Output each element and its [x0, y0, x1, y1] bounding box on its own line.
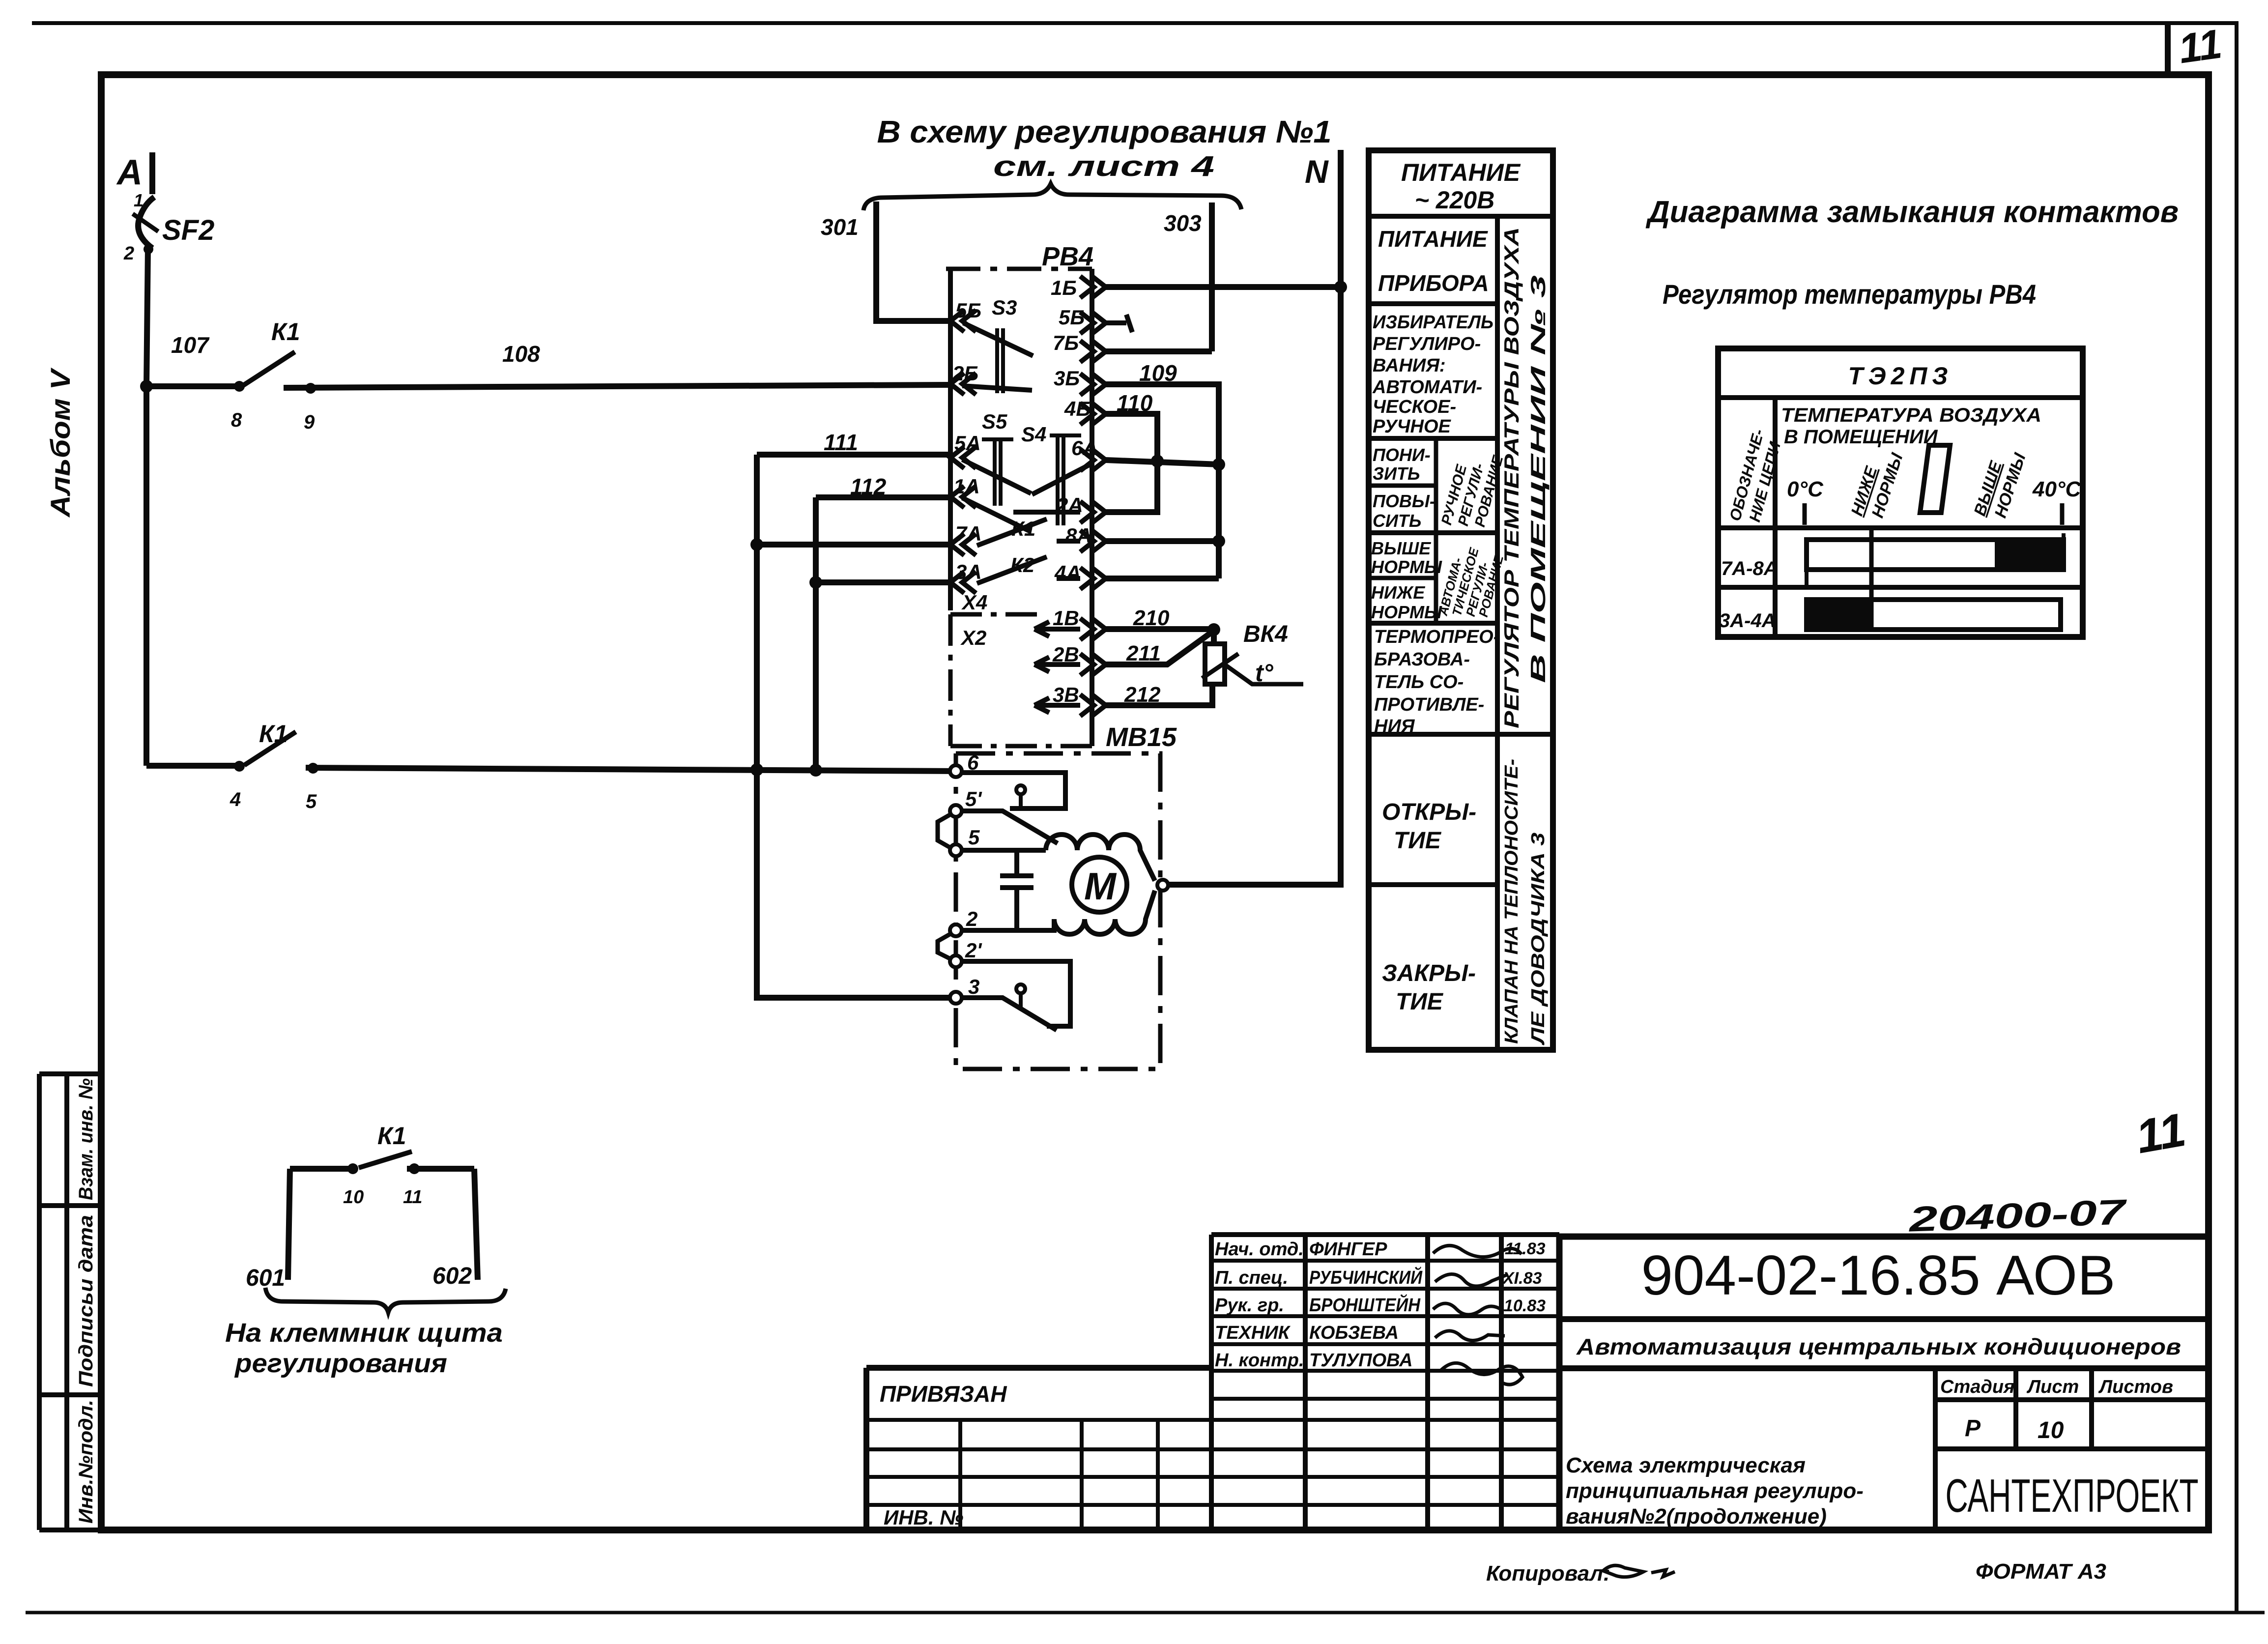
wire 1Б to N	[1106, 284, 1341, 290]
svg-text:СИТЬ: СИТЬ	[1373, 511, 1421, 531]
clamp grid	[866, 1420, 1211, 1505]
rotated cell: Ручное регулирование	[1434, 438, 1438, 533]
svg-text:SF2: SF2	[162, 214, 214, 246]
pin stub 3В with arrow	[1034, 698, 1080, 713]
svg-text:Схема электрическая: Схема электрическая	[1566, 1453, 1806, 1477]
svg-text:N: N	[1305, 153, 1329, 190]
svg-text:5: 5	[968, 826, 980, 849]
switch S5 manual actuator	[982, 439, 1013, 506]
svg-text:111: 111	[824, 430, 858, 455]
svg-text:10: 10	[2038, 1417, 2064, 1443]
node: 6А crosses 110 loop	[1151, 455, 1164, 467]
svg-text:1В: 1В	[1053, 606, 1079, 630]
PB4/X2 dashed outline bottom	[950, 614, 1092, 746]
svg-text:В ПОМЕЩЕНИИ: В ПОМЕЩЕНИИ	[1784, 426, 1938, 448]
svg-text:ТЭ2ПЗ: ТЭ2ПЗ	[1848, 362, 1953, 390]
wire 6А	[1106, 460, 1219, 464]
pin 7Б right chevron	[1080, 341, 1106, 362]
rotated column divider	[1495, 216, 1500, 1050]
circuit breaker SF2	[138, 197, 154, 248]
svg-text:602: 602	[432, 1263, 472, 1289]
svg-text:6А: 6А	[1071, 436, 1098, 460]
sensor slash and t°	[1202, 654, 1238, 678]
pin 4Б right chevron	[1080, 403, 1106, 425]
svg-text:2': 2'	[965, 939, 982, 962]
svg-text:НИЖЕ: НИЖЕ	[1371, 582, 1425, 603]
svg-text:ТЕХНИК: ТЕХНИК	[1215, 1323, 1291, 1343]
switch contact 2Б-3Б	[962, 386, 1032, 390]
contact bar 3А-4А (closed below norm)	[1807, 600, 2061, 630]
svg-text:ЗИТЬ: ЗИТЬ	[1373, 463, 1420, 484]
svg-text:Подписьи дата: Подписьи дата	[75, 1215, 97, 1387]
wire N bus	[1168, 150, 1341, 885]
pin 2А right chevron	[1080, 501, 1106, 523]
svg-text:На клеммник щита: На клеммник щита	[225, 1318, 503, 1348]
svg-text:3В: 3В	[1053, 683, 1079, 706]
svg-text:РУЧНОЕ: РУЧНОЕ	[1373, 416, 1452, 437]
svg-text:2В: 2В	[1052, 643, 1079, 666]
svg-text:ВЫШЕ: ВЫШЕ	[1371, 538, 1431, 558]
svg-text:ПРОТИВЛЕ-: ПРОТИВЛЕ-	[1374, 694, 1484, 715]
wire to MB15 terminal 6	[306, 768, 958, 771]
capacitor C	[1000, 850, 1034, 930]
svg-text:11: 11	[2176, 20, 2224, 72]
svg-text:Н. контр.: Н. контр.	[1215, 1350, 1304, 1371]
wire 7Б to 303	[1106, 348, 1212, 354]
svg-text:Инв.№подл.: Инв.№подл.	[75, 1400, 97, 1524]
contact K2 (3А-4А)	[977, 557, 1080, 583]
terminal 3	[950, 992, 962, 1004]
svg-text:МВ15: МВ15	[1106, 722, 1177, 752]
svg-text:2: 2	[123, 243, 134, 264]
pin 7А left chevrons	[950, 534, 976, 555]
svg-text:5': 5'	[965, 787, 982, 810]
switch S3 moving contact 5Б-7Б	[963, 323, 1033, 356]
switch contact 6А branch	[1032, 463, 1093, 494]
pin 2В right chevron	[1080, 654, 1106, 675]
stage/sheet grid	[1935, 1368, 2209, 1530]
signal table frame	[1369, 150, 1553, 1050]
svg-text:ТИЕ: ТИЕ	[1396, 989, 1444, 1015]
svg-text:9: 9	[304, 411, 315, 433]
svg-text:S4: S4	[1021, 423, 1046, 446]
svg-text:БРАЗОВА-: БРАЗОВА-	[1374, 649, 1470, 670]
wire 7А	[757, 542, 950, 548]
svg-text:К1: К1	[259, 720, 288, 748]
svg-text:Автоматизация центральных ко: Автоматизация центральных кондиционеров	[1576, 1334, 2181, 1359]
left column Обозначение цепи	[1773, 398, 1778, 637]
svg-text:ПРИБОРА: ПРИБОРА	[1378, 270, 1489, 296]
terminal 6	[950, 765, 962, 777]
svg-text:3А-4А: 3А-4А	[1719, 610, 1776, 632]
node: 8А joins 109 riser	[1212, 535, 1225, 548]
MB15 dashed boundary	[956, 753, 1160, 1069]
svg-text:S5: S5	[982, 410, 1007, 433]
svg-text:Регулятор температуры РВ4: Регулятор температуры РВ4	[1663, 279, 2036, 310]
svg-text:ИЗБИРАТЕЛЬ: ИЗБИРАТЕЛЬ	[1373, 312, 1493, 333]
svg-text:303: 303	[1164, 210, 1202, 236]
svg-text:A: A	[116, 153, 143, 192]
wire 3А	[816, 579, 950, 585]
svg-text:САНТЕХПРОЕКТ: САНТЕХПРОЕКТ	[1946, 1470, 2199, 1522]
svg-text:В ПОМЕЩЕНИИ № 3: В ПОМЕЩЕНИИ № 3	[1526, 275, 1550, 683]
brace to sheet 4	[863, 184, 1241, 210]
contact bar 7А-8А (closed above norm)	[1807, 540, 2064, 570]
svg-text:ПОВЫ-: ПОВЫ-	[1373, 491, 1435, 511]
motor M winding lower	[1054, 891, 1155, 934]
svg-text:см. лист 4: см. лист 4	[993, 150, 1214, 182]
svg-text:Листов: Листов	[2098, 1377, 2173, 1397]
rotated cell: Автоматическое регулирование	[1434, 533, 1438, 623]
row divider	[1718, 585, 2083, 590]
motor output terminal	[1157, 880, 1168, 891]
svg-text:В схему регулирования №1: В схему регулирования №1	[877, 114, 1332, 149]
motor M winding upper	[1046, 835, 1155, 881]
svg-text:2: 2	[966, 907, 977, 930]
svg-text:1А: 1А	[953, 475, 980, 498]
svg-text:Диаграмма замыкания контакто: Диаграмма замыкания контактов	[1645, 195, 2179, 229]
upper limit switch pin	[1016, 785, 1025, 794]
svg-text:П. спец.: П. спец.	[1215, 1268, 1288, 1288]
svg-text:5: 5	[306, 791, 317, 812]
node: 7А taps riser A1	[750, 538, 763, 551]
wire 8А	[1106, 538, 1219, 544]
lower limit switch bracket	[961, 961, 1070, 1026]
svg-text:601: 601	[246, 1265, 285, 1291]
pin 1В right chevron	[1080, 618, 1106, 640]
svg-text:БРОНШТЕЙН: БРОНШТЕЙН	[1309, 1294, 1421, 1316]
wire: phase A stub above SF2	[149, 152, 155, 194]
node: junction vertical B1 on terminal-6 wire	[809, 764, 822, 777]
title block main frame	[1559, 1237, 2209, 1530]
pin 1А left chevrons	[950, 486, 976, 508]
svg-text:5Б: 5Б	[1059, 306, 1085, 329]
svg-text:107: 107	[171, 332, 210, 358]
svg-text:0°С: 0°С	[1787, 477, 1824, 501]
svg-text:8: 8	[231, 409, 242, 431]
riser B1 (112 down)	[813, 497, 819, 770]
svg-text:ПРИВЯЗАН: ПРИВЯЗАН	[880, 1381, 1007, 1407]
node: junction vertical A1 on terminal-6 wire	[750, 763, 763, 776]
svg-text:5Б: 5Б	[955, 299, 981, 322]
svg-text:7Б: 7Б	[1053, 331, 1079, 354]
switch S4 manual actuator	[1050, 435, 1081, 525]
svg-text:ВК4: ВК4	[1243, 621, 1288, 647]
svg-text:вания№2(продолжение): вания№2(продолжение)	[1566, 1504, 1827, 1529]
svg-text:904-02-16.85 АОВ: 904-02-16.85 АОВ	[1641, 1244, 2116, 1307]
sheet top edge line	[32, 21, 2235, 25]
svg-text:t°: t°	[1255, 659, 1274, 687]
svg-text:ЗАКРЫ-: ЗАКРЫ-	[1382, 960, 1476, 986]
svg-text:Х2: Х2	[960, 626, 986, 649]
svg-text:Х4: Х4	[961, 591, 987, 614]
sheet right edge line	[2235, 21, 2239, 1614]
pin 2Б left chevrons	[950, 373, 976, 395]
svg-text:ТИЕ: ТИЕ	[1394, 828, 1442, 854]
svg-text:10: 10	[343, 1187, 364, 1208]
svg-text:НОРМЫ: НОРМЫ	[1371, 602, 1442, 622]
svg-text:11: 11	[2132, 1103, 2189, 1164]
terminal 2'	[950, 955, 962, 967]
sidebar stamp boxes (left margin)	[39, 1074, 101, 1530]
svg-text:3Б: 3Б	[1054, 367, 1080, 390]
svg-text:Рук. гр.: Рук. гр.	[1215, 1295, 1284, 1316]
svg-text:ЧЕСКОЕ-: ЧЕСКОЕ-	[1373, 397, 1456, 417]
svg-text:ТЕМПЕРАТУРА ВОЗДУХА: ТЕМПЕРАТУРА ВОЗДУХА	[1781, 404, 2041, 426]
switch S3 linkage	[997, 328, 1003, 393]
upper limit switch bracket	[961, 773, 1065, 808]
svg-text:РЕГУЛЯТОР ТЕМПЕРАТУРЫ ВОЗДУХА: РЕГУЛЯТОР ТЕМПЕРАТУРЫ ВОЗДУХА	[1500, 227, 1523, 728]
svg-text:ТЕРМОПРЕО-: ТЕРМОПРЕО-	[1374, 627, 1499, 647]
contact K1 (7А-8А)	[977, 519, 1080, 546]
sheet number box top-right	[2165, 23, 2171, 75]
wire 602 drop	[474, 1169, 478, 1280]
svg-text:РУБЧИНСКИЙ: РУБЧИНСКИЙ	[1309, 1266, 1423, 1288]
svg-text:Лист: Лист	[2026, 1377, 2079, 1397]
svg-text:10.83: 10.83	[1504, 1297, 1546, 1315]
svg-text:4: 4	[230, 789, 241, 810]
svg-text:5А: 5А	[954, 432, 981, 455]
svg-text:ОТКРЫ-: ОТКРЫ-	[1382, 799, 1476, 825]
wire 601 drop	[288, 1169, 290, 1280]
svg-text:ВАНИЯ:: ВАНИЯ:	[1373, 355, 1446, 376]
pin 3В right chevron	[1080, 694, 1106, 716]
svg-text:ТЕЛЬ СО-: ТЕЛЬ СО-	[1374, 672, 1464, 692]
svg-text:~ 220В: ~ 220В	[1415, 186, 1495, 214]
norm line vertical	[1869, 528, 1874, 630]
node: 210/211 join above BK4	[1207, 623, 1220, 636]
pin 3А left chevrons	[950, 572, 976, 593]
svg-text:К1: К1	[271, 318, 300, 346]
svg-text:регулирования: регулирования	[234, 1349, 447, 1378]
svg-text:3А: 3А	[955, 560, 982, 583]
pin 5Б left chevrons	[950, 310, 976, 332]
svg-text:НОРМЫ: НОРМЫ	[1371, 557, 1442, 577]
pin stub 1В with arrow	[1034, 622, 1080, 636]
svg-text:3: 3	[968, 975, 979, 998]
pin 5Б right chevron	[1080, 312, 1106, 334]
svg-text:АВТОМАТИ-: АВТОМАТИ-	[1372, 377, 1482, 398]
svg-text:Нач. отд.: Нач. отд.	[1215, 1239, 1304, 1260]
svg-text:11.83: 11.83	[1505, 1240, 1546, 1258]
sheet bottom edge line	[26, 1611, 2265, 1615]
wire: phase A vertical bus	[146, 248, 148, 766]
svg-text:ФОРМАТ А3: ФОРМАТ А3	[1976, 1559, 2106, 1584]
svg-text:S3: S3	[992, 296, 1017, 319]
pin 3Б right chevron	[1080, 374, 1106, 395]
clamp box Привязан	[866, 1368, 1211, 1530]
svg-text:2Б: 2Б	[952, 362, 978, 385]
svg-text:КЛАПАН НА ТЕПЛОНОСИТЕ-: КЛАПАН НА ТЕПЛОНОСИТЕ-	[1501, 759, 1522, 1044]
riser A1 (111 to clamp)	[757, 455, 953, 998]
svg-text:11: 11	[403, 1187, 422, 1208]
terminal 5'	[950, 805, 962, 817]
PB4 right pin bus	[1090, 269, 1094, 746]
svg-text:Стадия: Стадия	[1940, 1377, 2014, 1397]
pin 8А right chevron	[1080, 530, 1106, 552]
svg-text:ПОНИ-: ПОНИ-	[1373, 445, 1431, 465]
contact diagram table ТЭ2ПЗ	[1718, 348, 2083, 637]
svg-text:принципиальная регулиро-: принципиальная регулиро-	[1566, 1479, 1864, 1503]
node: junction of wire 107 on bus A	[140, 380, 153, 393]
jumper link 2-2'	[938, 933, 951, 959]
PB4 left pin bus	[948, 269, 953, 610]
svg-text:ФИНГЕР: ФИНГЕР	[1309, 1239, 1387, 1260]
svg-text:ТУЛУПОВА: ТУЛУПОВА	[1309, 1350, 1413, 1371]
wire 5Б stub	[1106, 315, 1132, 332]
lower limit switch contact	[962, 998, 1057, 1030]
jumper link 5'-5	[938, 814, 951, 848]
upper limit switch contact	[962, 811, 1058, 843]
wire terminal 2 under motor	[962, 920, 1054, 930]
wire 4А	[1106, 576, 1219, 581]
svg-text:Альбом V: Альбом V	[45, 367, 76, 518]
svg-text:7А-8А: 7А-8А	[1721, 558, 1778, 579]
svg-text:ИНВ. №: ИНВ. №	[884, 1506, 963, 1529]
svg-text:XI.83: XI.83	[1502, 1269, 1542, 1288]
brace (to terminal strip)	[265, 1288, 506, 1312]
node: 6А joins 109 riser	[1212, 458, 1225, 471]
svg-text:ЛЕ ДОВОДЧИКА 3: ЛЕ ДОВОДЧИКА 3	[1528, 833, 1549, 1046]
svg-text:7А: 7А	[955, 522, 982, 545]
svg-text:ПИТАНИЕ: ПИТАНИЕ	[1378, 226, 1488, 252]
terminal 5	[950, 844, 962, 856]
svg-text:108: 108	[502, 341, 540, 367]
pin 6А right chevron	[1080, 449, 1106, 471]
svg-text:Взам. инв. №: Взам. инв. №	[75, 1078, 97, 1200]
svg-text:20400-07: 20400-07	[1907, 1192, 2128, 1240]
lower limit switch pin	[1016, 984, 1025, 993]
svg-text:ПИТАНИЕ: ПИТАНИЕ	[1401, 159, 1521, 186]
header bottom line	[1718, 525, 2083, 530]
svg-text:4Б: 4Б	[1064, 397, 1091, 420]
svg-text:1Б: 1Б	[1051, 276, 1077, 299]
setpoint parallelogram	[1920, 445, 1950, 513]
svg-text:РЕГУЛИРО-: РЕГУЛИРО-	[1373, 334, 1481, 354]
svg-text:Копировал:: Копировал:	[1486, 1561, 1610, 1586]
switch contact 5А-1А	[962, 460, 1031, 493]
svg-text:M: M	[1084, 865, 1117, 908]
pin 1Б right chevron	[1080, 276, 1106, 298]
pin 4А right chevron	[1080, 568, 1106, 589]
staff table	[1211, 1235, 1559, 1530]
node: 3А taps riser B1	[809, 576, 822, 589]
svg-text:301: 301	[821, 214, 859, 240]
terminal 2	[950, 924, 962, 936]
svg-text:Р: Р	[1965, 1415, 1981, 1442]
switch contact 1А-2А	[962, 498, 1080, 532]
svg-text:К1: К1	[377, 1122, 406, 1150]
PB4 dashed outline top	[946, 267, 1092, 271]
pin 5А left chevrons	[950, 447, 976, 468]
wire terminal 5 to motor	[962, 848, 1046, 853]
node: 1Б joins N	[1334, 281, 1347, 293]
pin stub 2В with arrow	[1034, 657, 1080, 672]
svg-text:КОБЗЕВА: КОБЗЕВА	[1309, 1323, 1399, 1343]
svg-text:40°С: 40°С	[2032, 477, 2082, 501]
motor M	[1072, 857, 1127, 912]
